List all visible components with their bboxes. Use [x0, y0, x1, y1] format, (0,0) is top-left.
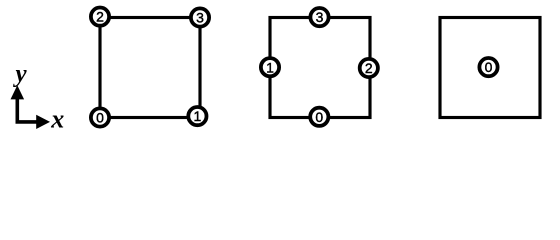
- element 1 outline: [100, 18, 200, 118]
- node 1 (element 2, left edge): [261, 58, 279, 76]
- node 0 (element 2, bottom edge): [310, 108, 328, 126]
- node 3 (element 1, top-right): [191, 8, 209, 26]
- svg-text:2: 2: [96, 9, 104, 25]
- element 3 outline: [440, 18, 540, 118]
- node 0 (element 3, interior): [479, 58, 497, 76]
- svg-text:1: 1: [194, 108, 202, 124]
- svg-text:y: y: [13, 61, 28, 88]
- svg-text:x: x: [50, 104, 64, 133]
- node 1 (element 1, bottom-right): [188, 107, 206, 125]
- svg-text:3: 3: [196, 10, 204, 26]
- svg-text:2: 2: [365, 60, 373, 76]
- node 3 (element 2, top edge): [310, 8, 328, 26]
- svg-text:1: 1: [266, 59, 274, 75]
- svg-text:0: 0: [485, 59, 493, 75]
- element 2 outline: [270, 18, 370, 118]
- x-axis arrow: [16, 115, 51, 129]
- y-axis arrow: [11, 85, 25, 123]
- svg-text:0: 0: [315, 109, 323, 125]
- node 2 (element 1, top-left): [91, 8, 109, 26]
- node 2 (element 2, right edge): [360, 59, 378, 77]
- svg-text:3: 3: [316, 9, 324, 25]
- svg-text:0: 0: [96, 110, 104, 126]
- node 0 (element 1, bottom-left): [91, 108, 109, 126]
